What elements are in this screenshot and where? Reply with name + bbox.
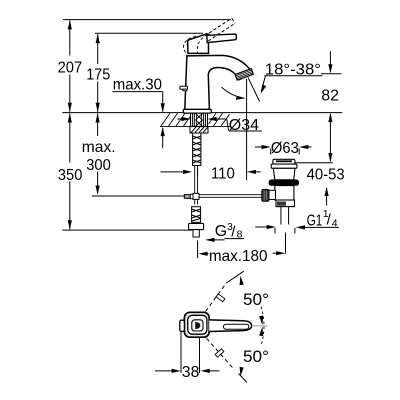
dashed swing ray lower [207,338,248,382]
svg-text:207: 207 [58,59,83,76]
rod cross fitting [184,195,190,199]
top view lever slot [224,324,249,329]
svg-text:8: 8 [237,229,243,241]
dimension max.300 [96,113,100,195]
dimension 38 [155,332,220,373]
top view body inner [188,315,207,334]
svg-text:40-53: 40-53 [307,167,345,184]
dimension 40-53 lower arrow [325,187,329,206]
top view left tab [180,320,185,331]
svg-text:G: G [215,223,227,240]
svg-text:50°: 50° [243,348,269,366]
G3/8 nut [189,223,204,229]
mounting nut below deck [190,127,208,133]
svg-text:4: 4 [332,217,338,229]
drain side port [269,190,276,199]
deck hatching [160,113,230,126]
aerator spout tip [235,69,253,81]
G3/8 threaded stub [192,207,201,223]
svg-text:110: 110 [211,166,235,183]
drain pop-up waste assembly [262,159,299,224]
top view body outer [184,312,209,337]
dimension 110 [161,79,261,180]
wire 350 bottom reference line [62,229,192,231]
wire deck surface line [62,112,342,114]
dimension max.180 [198,233,286,259]
dimension G3/8 leader [205,238,244,242]
pop-up rod horizontal [92,195,185,197]
wire reference line 175 [95,32,203,34]
top view lever [209,320,251,332]
svg-text:/: / [231,223,236,240]
dimension G1 1/4 [255,225,338,234]
handle lever grip [207,34,237,43]
drain neck [273,168,295,180]
svg-text:Ø63: Ø63 [271,140,299,157]
drain collar [276,200,295,207]
svg-text:175: 175 [86,66,110,83]
dimension 350 [68,113,72,229]
svg-text:max.30: max.30 [113,76,162,93]
dimension 175 [96,34,100,112]
dimension max.30 deck thickness [113,92,165,148]
drain gasket [269,180,299,185]
dashed lever raised position [205,18,236,41]
dashed swing ray upper [206,271,244,311]
drain tailpipe [280,207,282,225]
dashed housing rotated outline [183,36,203,53]
dimension Ø34 [177,117,261,131]
dimension 82 [295,51,341,163]
svg-text:max.: max. [82,139,116,156]
handle cartridge housing [188,34,209,54]
angle arc 50 degrees [240,276,264,377]
dimension 207 [68,20,72,112]
svg-text:300: 300 [86,157,111,174]
dimension Ø63 [255,145,312,155]
top view opening [192,320,203,331]
faucet body and spout outline [185,55,252,109]
top view cartridge dark mark [195,322,200,329]
centerline [252,325,268,327]
wire top reference line 207 [63,19,231,21]
drain body [275,186,294,200]
pop-up rod knob on body [180,86,188,89]
faucet base plate [183,109,211,113]
svg-text:350: 350 [58,167,83,184]
svg-text:Ø34: Ø34 [229,117,259,134]
drain rod knob [262,190,269,202]
svg-text:max.180: max.180 [209,248,268,265]
svg-text:50°: 50° [243,291,269,309]
18-38 label underline [265,75,323,77]
drain cap lip [271,164,297,168]
threaded shank through deck [191,113,208,126]
svg-text:82: 82 [321,87,339,104]
thin connector pipe [194,166,196,205]
spray angle rays 18-38 [222,76,267,102]
drain plug cap [273,159,295,164]
threaded supply pipe [193,133,201,166]
svg-text:18°-38°: 18°-38° [265,61,321,78]
svg-text:G1: G1 [307,212,323,229]
svg-text:38: 38 [182,364,200,381]
G3/8 lower stub [193,230,199,237]
